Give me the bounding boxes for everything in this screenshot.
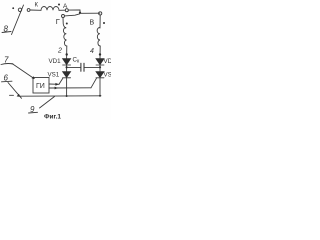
control line to VS1 gate <box>49 83 59 85</box>
junction dot below winding 4 <box>99 53 101 55</box>
svg-text:ГИ: ГИ <box>36 83 45 90</box>
label 8 <box>4 25 9 34</box>
wire VS1 to bus <box>66 78 68 96</box>
capacitor Ck plates <box>80 63 82 71</box>
node B circle <box>99 12 102 15</box>
junction dot left cap node <box>66 66 68 68</box>
label 7 <box>4 56 9 65</box>
svg-text:2: 2 <box>57 48 62 55</box>
thyristor VS2 <box>96 72 104 78</box>
svg-text:VD2: VD2 <box>104 58 112 65</box>
wire switch to coil <box>30 9 41 11</box>
label 7 underline <box>1 63 13 66</box>
inductor K (3 humps) <box>41 7 59 11</box>
box GI (pulse generator) <box>33 78 49 94</box>
wire leader to switch (supply line) <box>12 5 24 35</box>
svg-text:VD1: VD1 <box>49 58 62 65</box>
node G circle <box>62 15 65 18</box>
junction dot below winding 2 <box>66 53 68 55</box>
control line to VS2 gate <box>49 87 91 89</box>
arrowhead leader 7 <box>32 76 35 79</box>
VS2 gate lead <box>91 78 97 88</box>
arrowhead control line 1 <box>55 83 58 86</box>
wire node G down to winding 2 <box>63 18 66 29</box>
label 9 <box>30 105 35 114</box>
dot left of switch <box>12 7 14 9</box>
winding 4 (vertical coil 3 loops) <box>97 28 100 47</box>
label 9 underline <box>29 111 38 114</box>
wire coil to node A <box>59 9 65 11</box>
VS1 gate lead <box>59 78 63 84</box>
wire winding4 top <box>99 15 101 28</box>
polarity dot winding 4 top <box>103 22 105 24</box>
label VD2 <box>104 58 117 65</box>
svg-text:VS2: VS2 <box>104 72 112 79</box>
label B <box>90 20 95 27</box>
bus junction dot VS2 <box>99 95 101 97</box>
svg-text:Фиг.1: Фиг.1 <box>44 114 61 121</box>
diode VD2 <box>96 59 104 65</box>
box GI text <box>36 83 45 90</box>
label 2 <box>57 48 62 55</box>
corner jog down <box>79 10 81 13</box>
bottom bus wire <box>18 95 101 97</box>
wire VD1 to junction <box>66 65 68 71</box>
wire VD2 to junction <box>99 65 101 71</box>
svg-text:В: В <box>90 20 95 27</box>
leader 9 to bus <box>40 97 55 109</box>
svg-text:Г: Г <box>56 17 60 26</box>
wire winding 2 to VD1 <box>66 46 68 59</box>
switch K left terminal <box>18 8 21 11</box>
bus left end dash <box>10 94 14 96</box>
label VD1 <box>49 58 62 65</box>
arrowhead control line 2 <box>55 87 58 90</box>
svg-text:К: К <box>35 2 39 8</box>
polarity dot coil K <box>58 4 60 6</box>
label G <box>56 17 60 26</box>
label VS2 <box>104 72 116 79</box>
junction dot at corner <box>79 12 81 14</box>
svg-text:4: 4 <box>90 48 94 55</box>
wire node A to corner <box>68 9 80 11</box>
bus junction dot VS1 <box>66 95 68 97</box>
leader 7 to box <box>12 64 34 79</box>
capacitor Ck label <box>73 57 81 65</box>
wire corner to node B <box>80 12 100 14</box>
label 6 <box>4 74 9 83</box>
label 8 underline <box>2 32 11 33</box>
node A label <box>63 3 68 10</box>
label K <box>35 2 39 8</box>
wire node G to corner <box>65 14 80 16</box>
switch K right terminal <box>27 9 30 12</box>
junction dot right cap node <box>99 66 101 68</box>
thyristor VS1 <box>63 72 71 78</box>
label 4 <box>90 48 94 55</box>
wire winding 4 to VD2 <box>99 46 101 59</box>
wire VS2 to bus <box>99 78 101 96</box>
winding 2 (vertical coil 3 loops) <box>63 28 66 47</box>
leader 6 to bus end <box>8 83 22 99</box>
polarity dot winding 2 top <box>66 23 68 25</box>
label 6 underline <box>2 80 13 83</box>
arrowhead leader 6 <box>17 94 21 97</box>
capacitor Ck leads <box>68 66 81 68</box>
node A circle <box>65 9 68 12</box>
diode VD1 <box>63 59 71 65</box>
label VS1 <box>48 72 60 79</box>
caption Fig.1 <box>44 114 61 121</box>
